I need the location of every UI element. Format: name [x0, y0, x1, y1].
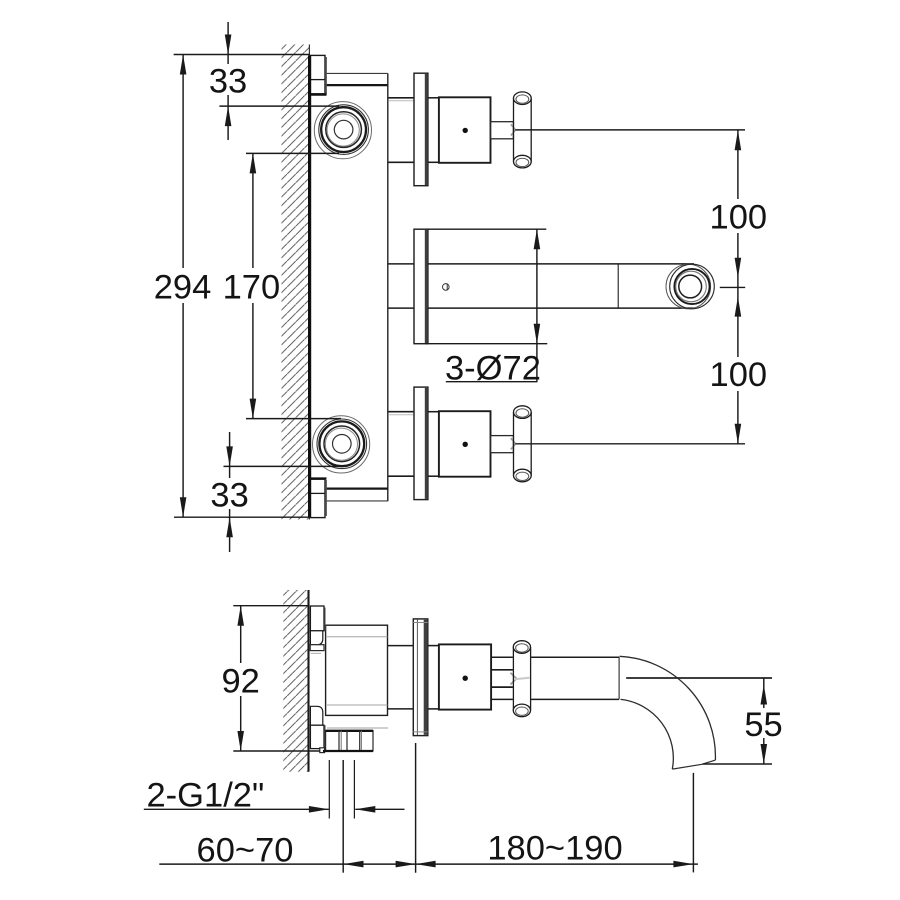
spout tube bottom line	[428, 307, 694, 309]
side top lug foot	[310, 645, 324, 651]
side escutcheon flange	[413, 619, 428, 736]
side hex adapter top edge	[491, 669, 513, 671]
top valve hex chevron	[511, 124, 516, 135]
spout centre tick	[720, 286, 745, 288]
text bg 92	[220, 663, 262, 696]
side cartridge body	[439, 644, 491, 709]
side spout joint line	[618, 657, 620, 699]
pipe ext line right	[353, 760, 355, 819]
side flange top chamfer	[413, 622, 428, 624]
dim line 100/100	[737, 130, 739, 444]
arrow 33 top lower	[225, 106, 232, 126]
top wall lug	[310, 55, 325, 93]
bottom valve escutcheon flange	[414, 387, 428, 500]
body right edge	[387, 73, 389, 501]
arrow 100 top	[735, 130, 742, 150]
side handle top cap	[513, 641, 530, 654]
top lug bottom shadow	[310, 93, 327, 95]
wall hatch band	[282, 45, 310, 520]
side flange bottom chamfer	[413, 731, 428, 733]
top rosette outer shadow circle	[314, 102, 371, 159]
top lug right shadow	[325, 57, 327, 95]
arrow dia72 bottom	[534, 324, 541, 344]
bottom valve handle bottom cap rim	[516, 472, 529, 480]
supply block divider 2	[346, 731, 348, 751]
side wall face line	[307, 590, 309, 772]
side handle bar right side	[530, 647, 532, 710]
svg-text:60~70: 60~70	[197, 832, 294, 870]
side wall hatch band	[283, 590, 308, 772]
spout ball outer circle	[670, 264, 715, 309]
top valve handle bar right side	[530, 98, 532, 161]
top rosette ring (thick)	[321, 107, 366, 152]
ext line top rosette lower tangent	[246, 152, 339, 154]
flange face ext line	[415, 743, 417, 873]
side spout tube top line	[491, 656, 619, 658]
bottom valve handle bottom cap	[514, 469, 532, 482]
dim line 33 top	[227, 22, 229, 140]
mounting body plate	[309, 73, 387, 501]
SIDE DIMENSIONS	[144, 606, 783, 873]
supply block divider 3b	[360, 731, 362, 751]
top valve handle bar left side	[513, 98, 515, 161]
bottom rosette ring (thick)	[319, 421, 364, 466]
text bg 55	[744, 708, 783, 738]
side top lug right shadow	[324, 608, 326, 631]
arrow 100 mid upper	[735, 258, 742, 278]
leader 2-G1/2 left segment	[144, 808, 329, 810]
supply block bottom edge	[323, 750, 373, 752]
ext line spout flange top	[428, 228, 546, 230]
arrow 92 top	[237, 606, 244, 626]
body top edge (thin)	[326, 72, 388, 74]
bottom lug right shadow	[325, 480, 327, 516]
ext line side body bottom	[233, 750, 320, 752]
bottom valve hex adapter	[491, 436, 514, 453]
side flange shadow band	[424, 620, 428, 735]
dim line 294	[182, 55, 184, 518]
arrow 60-70 left	[344, 861, 364, 868]
text bg 100 top	[710, 199, 766, 233]
arrow 60-70 right	[396, 861, 416, 868]
side bottom lug foot	[320, 748, 325, 753]
side bottom lug right shadow	[324, 725, 326, 748]
side spout bend inner curve	[621, 699, 674, 769]
text bg 100 bottom	[710, 357, 766, 391]
body bottom edge (thin)	[326, 500, 388, 502]
top valve cartridge body	[439, 97, 491, 163]
body bottom inner edge (thick)	[326, 487, 388, 489]
side handle bottom cap rim	[516, 707, 529, 715]
top valve handle bottom cap rim	[516, 158, 529, 166]
side handle front knob hub	[514, 678, 529, 679]
top lug divider	[310, 79, 325, 81]
side stem2 bottom line	[428, 708, 439, 710]
side hex chevron	[510, 673, 516, 685]
top valve escutcheon flange	[414, 73, 428, 186]
spout tube joint	[617, 265, 619, 308]
svg-text:100: 100	[710, 199, 768, 237]
top valve handle bottom cap	[514, 155, 532, 168]
svg-text:33: 33	[209, 63, 247, 101]
spout ball mouth	[679, 275, 702, 298]
spout tip ext line	[692, 773, 694, 873]
bottom valve dot	[463, 442, 468, 447]
arrow 33 bottom lower	[226, 517, 233, 537]
spout flange shadow band	[425, 230, 428, 343]
dim line 92	[240, 606, 242, 751]
spout set screw flat	[446, 284, 448, 291]
bottom valve cartridge body	[439, 411, 491, 477]
bottom valve stem1 top line	[388, 411, 414, 413]
arrow 180-190 left	[416, 861, 436, 868]
side flange inner line	[416, 620, 418, 736]
arrow 170 bottom	[250, 399, 257, 419]
top valve dot	[463, 128, 468, 133]
ext line top of body	[174, 54, 310, 56]
bottom valve handle axis line	[515, 443, 745, 445]
top valve stem1 bottom line	[388, 161, 414, 163]
bottom valve stem2 bottom line	[428, 475, 439, 477]
top valve stem1 highlight	[389, 100, 414, 102]
svg-text:92: 92	[222, 663, 260, 701]
top valve handle top cap	[514, 92, 532, 105]
side stem1 bottom line	[388, 708, 414, 710]
arrow 100 mid lower	[735, 297, 742, 317]
side handle bottom cap	[513, 704, 530, 717]
supply block divider 1	[338, 731, 340, 751]
ext line spout flange bottom	[425, 343, 547, 345]
wall face line thin bottom	[308, 517, 310, 519]
bottom valve handle bar left side	[513, 412, 515, 475]
svg-text:170: 170	[223, 268, 281, 306]
FRONT VIEW	[282, 45, 746, 520]
side handle bar left side	[512, 647, 514, 710]
arrow 294 bottom	[180, 497, 187, 517]
bottom wall lug	[310, 479, 325, 517]
top valve stem2 bottom line	[428, 161, 439, 163]
side stem2 top line	[428, 645, 439, 647]
bottom valve handle bar right side	[530, 412, 532, 475]
top valve handle axis line	[515, 129, 745, 131]
leader arrow right-pointing	[309, 806, 329, 813]
bottom valve handle top cap rim	[516, 409, 529, 417]
svg-text:180~190: 180~190	[487, 830, 622, 868]
side hex adapter bottom edge	[491, 686, 513, 688]
top valve stem2 top line	[428, 97, 439, 99]
arrow 33 bottom upper	[226, 446, 233, 466]
side stem1 top line	[388, 645, 414, 647]
top rosette circle 4	[327, 114, 359, 146]
spout escutcheon flange	[414, 229, 428, 344]
bottom valve hex chevron	[511, 438, 516, 449]
spout tube top line	[428, 263, 694, 265]
bottom rosette circle 4	[325, 428, 357, 460]
arrow 170 top	[250, 153, 257, 173]
bottom rosette circle 3	[324, 426, 360, 462]
arrow 55 top	[761, 685, 768, 705]
text bg 294	[155, 268, 211, 303]
dim line 55	[763, 678, 765, 764]
side top lug lower part	[310, 631, 322, 645]
arrow 294 top	[180, 55, 187, 75]
bottom rosette circle 2	[317, 419, 367, 469]
pipe ext line left	[328, 760, 330, 819]
side spout tube bottom line	[491, 698, 619, 700]
spout stem bottom line	[388, 307, 414, 309]
side bottom lug lower part	[310, 725, 324, 748]
leader arrow left-pointing	[355, 806, 375, 813]
side top lug foot shadow	[311, 652, 321, 654]
wall face line thick	[308, 56, 311, 518]
supply block divider 1b	[340, 731, 342, 751]
pipe centre ext line	[342, 760, 344, 873]
top valve hex adapter	[491, 122, 514, 139]
arrow 92 bottom	[237, 731, 244, 751]
spout stem top line	[388, 263, 414, 265]
supply block body	[326, 731, 373, 751]
SIDE VIEW	[283, 590, 715, 819]
side cartridge dot	[463, 676, 468, 681]
spout set screw detail	[443, 284, 450, 291]
top valve flange shadow band	[425, 74, 428, 185]
bottom valve stem1 highlight	[389, 414, 414, 416]
bottom rosette outer shadow circle	[313, 416, 370, 473]
side handle bar fill	[513, 646, 531, 711]
side spout outlet edge	[672, 760, 715, 769]
text bg 33 top	[208, 64, 248, 95]
top rosette circle 2	[319, 105, 369, 155]
underline 3-dia72	[446, 381, 538, 383]
supply block top edge	[326, 730, 373, 732]
arrow 180-190 right	[673, 861, 693, 868]
side body	[326, 625, 388, 715]
top rosette circle 3	[326, 112, 362, 148]
bottom valve handle top cap	[514, 406, 532, 419]
side bottom lug upper part	[310, 706, 322, 725]
bottom valve stem1 bottom line	[388, 475, 414, 477]
ext line spout outlet	[703, 763, 772, 765]
bottom dim line	[159, 863, 698, 865]
arrow 33 top upper	[225, 35, 232, 55]
wall face line thin top	[308, 45, 310, 56]
ext line bottom rosette lower tangent	[224, 465, 340, 467]
spout ball ring 2	[676, 271, 707, 302]
text bg 33 bottom	[209, 478, 249, 509]
dim line 33 bottom	[229, 432, 231, 552]
ext line top rosette upper tangent	[219, 105, 339, 107]
ext line bottom of body	[174, 516, 310, 518]
body top inner edge (thick)	[326, 84, 388, 86]
svg-text:55: 55	[744, 706, 782, 744]
top valve stem1 top line	[388, 97, 414, 99]
top valve handle top cap rim	[516, 95, 529, 103]
dim line dia72	[536, 229, 538, 382]
dim line 170	[252, 153, 254, 418]
svg-text:294: 294	[154, 268, 212, 306]
bottom lug top shadow	[310, 477, 327, 479]
leader 2-G1/2 right segment	[355, 808, 404, 810]
svg-text:33: 33	[210, 476, 248, 514]
side spout bend outer curve	[620, 656, 716, 760]
arrow dia72 top	[534, 229, 541, 249]
top rosette inner circle	[334, 120, 353, 139]
FRONT DIMENSIONS	[154, 22, 767, 552]
arrow 55 bottom	[761, 744, 768, 764]
bottom valve flange shadow band	[425, 388, 428, 499]
spout ball ring	[674, 269, 709, 304]
side body bottom band line	[327, 704, 388, 706]
supply block top band	[327, 727, 388, 729]
bottom valve stem2 top line	[428, 411, 439, 413]
ext line side body top	[233, 605, 308, 607]
text bg 170	[225, 268, 278, 303]
side body top band line	[327, 636, 388, 638]
side handle top cap rim	[516, 644, 529, 652]
side top lug upper part	[310, 606, 324, 631]
spout axis ref line	[626, 677, 772, 679]
spout ball outer shadow circle	[666, 264, 711, 309]
bottom lug divider	[310, 492, 325, 494]
bottom rosette inner circle	[333, 435, 352, 454]
svg-text:100: 100	[710, 356, 768, 394]
ext line bottom rosette upper tangent	[246, 418, 341, 420]
supply block divider 3	[359, 731, 361, 751]
arrow 100 bottom	[735, 424, 742, 444]
